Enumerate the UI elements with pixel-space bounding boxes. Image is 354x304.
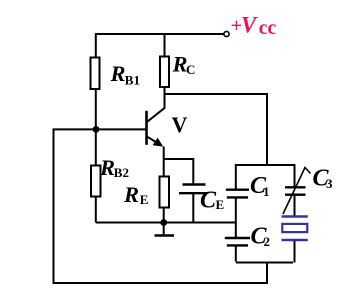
wire R_E bottom lead bbox=[163, 208, 165, 223]
resistor R_C bbox=[160, 57, 169, 88]
svg-text:3: 3 bbox=[326, 176, 333, 191]
wire R_C bottom to collector corner bbox=[164, 87, 166, 94]
resistor R_B1 bbox=[91, 58, 100, 90]
label C_E bbox=[200, 188, 224, 214]
capacitor C2 bbox=[225, 238, 250, 245]
ground bbox=[155, 223, 175, 236]
label V bbox=[172, 112, 188, 137]
wire top rail to +Vcc terminal bbox=[95, 33, 224, 35]
node base junction dot bbox=[93, 126, 100, 133]
svg-text:E: E bbox=[140, 192, 149, 207]
svg-text:1: 1 bbox=[263, 184, 270, 199]
svg-text:R: R bbox=[123, 182, 139, 207]
svg-text:C: C bbox=[200, 188, 217, 214]
label C3 bbox=[313, 166, 334, 192]
wire tank box bottom bbox=[236, 262, 293, 264]
wire feedback left branch bbox=[54, 129, 268, 283]
wire R_C top lead bbox=[164, 34, 166, 56]
svg-text:cc: cc bbox=[259, 18, 277, 39]
transistor V emitter lead with arrow bbox=[146, 136, 163, 146]
wire C_E bottom lead bbox=[192, 194, 194, 223]
wire C3 bottom to crystal bbox=[294, 196, 296, 217]
label C1 bbox=[250, 173, 270, 199]
svg-text:C: C bbox=[186, 62, 195, 77]
label R_B1 bbox=[110, 61, 140, 88]
capacitor C3 variable bbox=[283, 168, 311, 215]
node emitter rail junction dot bbox=[160, 219, 167, 226]
svg-text:B1: B1 bbox=[125, 73, 140, 88]
transistor V base bar bbox=[145, 111, 148, 145]
wire R_B1 top lead bbox=[95, 33, 97, 58]
node +Vcc terminal circle bbox=[224, 31, 229, 36]
label R_B2 bbox=[99, 155, 129, 180]
resistor R_E bbox=[160, 177, 170, 208]
svg-text:V: V bbox=[241, 13, 258, 38]
wire collector node to tank top bbox=[164, 94, 268, 166]
resistor R_B2 bbox=[91, 166, 101, 197]
transistor V collector lead bbox=[147, 94, 164, 122]
svg-text:B2: B2 bbox=[114, 165, 129, 180]
wire C1 to C2 bbox=[235, 198, 237, 238]
label R_C bbox=[172, 52, 196, 78]
wire C2 bottom to box bottom bbox=[235, 246, 237, 262]
wire emitter lead down bbox=[163, 147, 165, 178]
label C2 bbox=[251, 224, 271, 250]
svg-text:R: R bbox=[99, 155, 115, 180]
wire base junction to transistor base bbox=[96, 128, 146, 130]
wire R_B1 bottom to base node to R_B2 top bbox=[95, 89, 97, 166]
capacitor C1 bbox=[226, 190, 249, 198]
wire R_B2 bottom lead bbox=[95, 197, 97, 223]
crystal quartz resonator bbox=[282, 217, 308, 241]
svg-text:E: E bbox=[216, 197, 225, 212]
label R_E bbox=[123, 182, 148, 207]
wire emitter branch to C_E bbox=[164, 159, 194, 184]
net label +Vcc bbox=[231, 13, 277, 39]
wire bottom ground rail bbox=[96, 222, 237, 224]
svg-text:2: 2 bbox=[264, 234, 271, 249]
svg-text:R: R bbox=[110, 61, 126, 86]
wire tank box top bbox=[236, 165, 295, 189]
wire crystal bottom lead bbox=[294, 241, 296, 263]
capacitor C_E bbox=[179, 185, 207, 194]
wire C3 branch top lead bbox=[294, 165, 296, 187]
svg-text:V: V bbox=[172, 112, 188, 137]
